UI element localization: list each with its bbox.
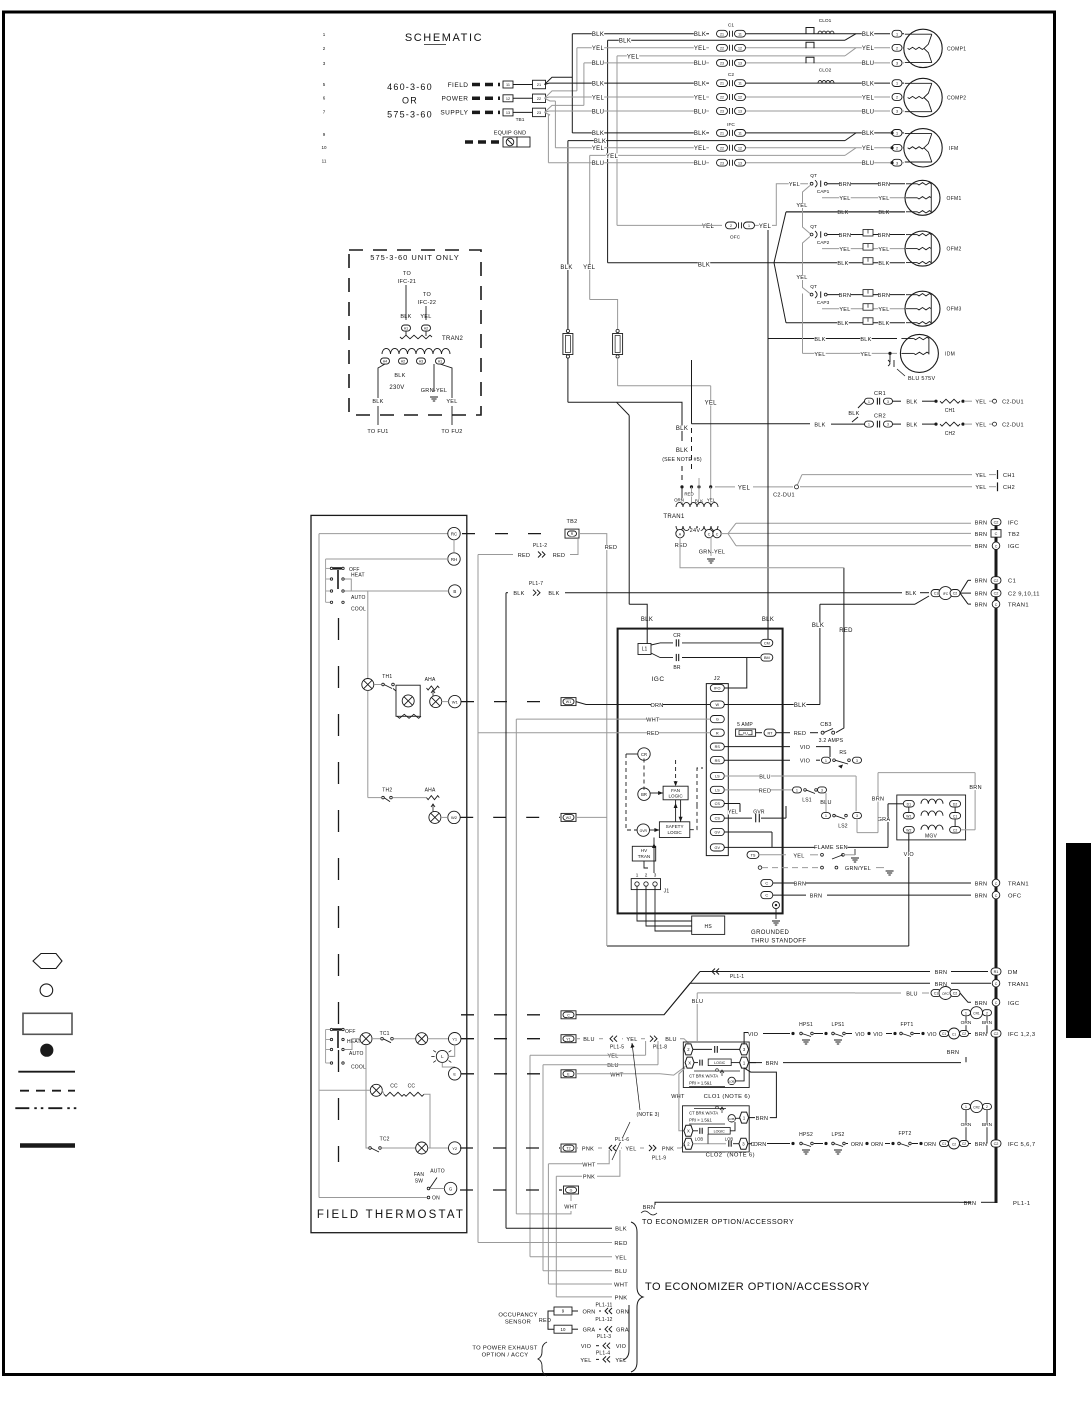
svg-text:WHT: WHT [564, 1205, 578, 1211]
svg-text:Y1: Y1 [566, 1037, 570, 1041]
svg-text:21: 21 [720, 132, 724, 136]
svg-text:T2: T2 [566, 1147, 570, 1151]
svg-text:IFC: IFC [727, 122, 735, 128]
svg-text:IGC: IGC [651, 676, 664, 683]
svg-text:BLK: BLK [878, 210, 889, 216]
svg-text:21: 21 [537, 83, 541, 87]
svg-text:IFC-21: IFC-21 [398, 279, 417, 285]
svg-text:YEL: YEL [615, 1255, 627, 1261]
svg-text:CH1: CH1 [945, 408, 956, 414]
svg-text:YEL: YEL [738, 485, 751, 491]
svg-text:HV: HV [641, 848, 648, 853]
svg-text:FU: FU [743, 732, 748, 736]
svg-text:BLK: BLK [794, 703, 806, 709]
svg-text:2: 2 [986, 1105, 988, 1109]
svg-text:CAP1: CAP1 [817, 189, 830, 195]
svg-text:GRA: GRA [878, 817, 891, 823]
svg-text:YEL: YEL [728, 810, 738, 816]
svg-text:CT BRK W/ATA: CT BRK W/ATA [689, 1074, 718, 1079]
svg-text:BLK: BLK [694, 81, 706, 87]
svg-text:PL1-4: PL1-4 [596, 1351, 610, 1357]
svg-text:YEL: YEL [580, 1358, 591, 1364]
svg-text:C1: C1 [953, 814, 957, 818]
svg-text:CLO1 (NOTE 6): CLO1 (NOTE 6) [704, 1094, 751, 1100]
svg-text:ORN: ORN [650, 703, 663, 709]
svg-text:BLK: BLK [906, 400, 917, 406]
svg-text:C2-DU1: C2-DU1 [1002, 400, 1024, 406]
svg-text:BLK: BLK [814, 337, 825, 343]
svg-text:PNK: PNK [615, 1295, 628, 1301]
svg-text:OFC: OFC [730, 234, 741, 240]
svg-text:BRN: BRN [982, 1020, 993, 1026]
svg-text:WHT: WHT [646, 718, 660, 724]
svg-text:X: X [688, 1060, 691, 1065]
svg-text:BRN: BRN [839, 233, 852, 239]
svg-text:SENSOR: SENSOR [505, 1320, 531, 1326]
svg-text:BLK: BLK [862, 32, 874, 38]
svg-text:YEL: YEL [694, 95, 707, 101]
svg-text:3: 3 [896, 161, 898, 165]
svg-text:RH: RH [451, 557, 457, 562]
svg-text:CR2: CR2 [973, 1105, 980, 1109]
svg-text:ORN: ORN [851, 1142, 863, 1148]
svg-text:RED: RED [675, 543, 688, 549]
svg-text:BLK: BLK [905, 591, 916, 597]
svg-text:22: 22 [720, 46, 724, 50]
svg-text:TS: TS [751, 853, 756, 857]
svg-text:BRN: BRN [975, 603, 988, 609]
svg-text:BLK: BLK [619, 39, 631, 45]
svg-text:PL1-5: PL1-5 [610, 1045, 624, 1051]
svg-text:BRN: BRN [975, 1032, 988, 1038]
svg-text:BLU: BLU [694, 109, 707, 115]
svg-text:CR2: CR2 [874, 414, 886, 420]
svg-text:IFC 1,2,3: IFC 1,2,3 [1008, 1032, 1035, 1038]
svg-text:BLU: BLU [692, 999, 704, 1005]
svg-text:BRN: BRN [947, 1050, 960, 1056]
svg-text:BLU: BLU [583, 1037, 595, 1043]
svg-text:VIO: VIO [800, 759, 811, 765]
svg-text:OPTION / ACCY: OPTION / ACCY [482, 1353, 529, 1359]
svg-text:C2: C2 [994, 592, 999, 596]
svg-text:LOB: LOB [695, 1137, 704, 1142]
svg-text:C2: C2 [994, 1032, 999, 1036]
svg-text:BRN: BRN [964, 1201, 977, 1207]
svg-text:QT: QT [810, 173, 817, 179]
svg-text:BLK: BLK [676, 426, 688, 432]
svg-text:CLO2: CLO2 [706, 1153, 723, 1159]
svg-text:YEL: YEL [705, 401, 718, 407]
svg-text:PRI > 1.5&1: PRI > 1.5&1 [689, 1080, 712, 1085]
svg-text:BLK: BLK [837, 261, 848, 267]
svg-text:VIO: VIO [800, 745, 811, 751]
svg-text:RED: RED [539, 1318, 552, 1324]
svg-text:ORN: ORN [961, 1020, 972, 1026]
svg-text:BLK: BLK [592, 32, 604, 38]
svg-text:C: C [708, 532, 711, 536]
svg-text:YEL: YEL [839, 247, 850, 253]
svg-text:BLU: BLU [862, 61, 875, 67]
svg-text:BLK: BLK [814, 422, 825, 428]
svg-text:TC2: TC2 [380, 1137, 390, 1143]
svg-text:BLK: BLK [372, 399, 383, 405]
svg-text:HPS2: HPS2 [799, 1132, 813, 1138]
svg-text:TB2: TB2 [1008, 532, 1020, 538]
svg-text:C: C [995, 1001, 998, 1005]
svg-text:BLU: BLU [694, 161, 707, 167]
svg-text:2: 2 [896, 46, 898, 50]
svg-text:C2: C2 [994, 579, 999, 583]
svg-text:CC: CC [408, 1084, 416, 1090]
svg-text:IFC 5,6,7: IFC 5,6,7 [1008, 1142, 1035, 1148]
svg-text:FIELD: FIELD [448, 82, 469, 89]
svg-text:H1: H1 [404, 327, 408, 331]
svg-text:YEL: YEL [860, 352, 871, 358]
svg-text:BLU: BLU [862, 109, 875, 115]
svg-text:TO: TO [403, 271, 412, 277]
svg-text:IGC: IGC [1008, 544, 1020, 550]
svg-text:BRN: BRN [878, 293, 891, 299]
svg-text:PL1-12: PL1-12 [595, 1317, 612, 1323]
svg-text:YEL: YEL [878, 196, 889, 202]
svg-text:(NOTE 6): (NOTE 6) [727, 1153, 755, 1159]
svg-text:H2: H2 [424, 327, 428, 331]
svg-text:IFO: IFO [714, 687, 720, 691]
svg-text:C: C [567, 1013, 570, 1017]
svg-text:BRN: BRN [756, 1116, 769, 1122]
svg-text:3: 3 [654, 873, 657, 878]
svg-text:SAFETY: SAFETY [666, 824, 684, 829]
svg-text:C: C [995, 532, 998, 536]
svg-text:2: 2 [896, 96, 898, 100]
svg-text:C1: C1 [942, 1032, 946, 1036]
svg-text:BLK: BLK [592, 81, 604, 87]
svg-text:LS1: LS1 [802, 798, 812, 804]
svg-text:G: G [716, 718, 719, 722]
svg-text:GROUNDED: GROUNDED [751, 930, 789, 936]
svg-text:COMP2: COMP2 [947, 96, 966, 102]
svg-text:LPS1: LPS1 [831, 1022, 844, 1028]
svg-text:ORN: ORN [753, 1142, 766, 1148]
svg-text:IGC: IGC [1008, 1001, 1020, 1007]
svg-text:1: 1 [825, 759, 827, 763]
svg-text:PL1-8: PL1-8 [653, 1045, 667, 1051]
svg-text:BRN: BRN [975, 544, 988, 550]
svg-text:PL1-3: PL1-3 [597, 1334, 611, 1340]
svg-text:WHT: WHT [671, 1094, 685, 1100]
svg-text:YEL: YEL [796, 275, 807, 281]
svg-text:CH2: CH2 [1003, 485, 1015, 491]
svg-text:575-3-60 UNIT ONLY: 575-3-60 UNIT ONLY [370, 253, 459, 262]
svg-text:BLK: BLK [812, 623, 824, 629]
svg-text:BM: BM [764, 656, 770, 660]
svg-text:PRI > 1.5&1: PRI > 1.5&1 [689, 1118, 712, 1123]
svg-text:C: C [995, 603, 998, 607]
svg-text:EQUIP GND: EQUIP GND [494, 131, 527, 137]
svg-text:COMP1: COMP1 [947, 46, 966, 52]
svg-text:LPS2: LPS2 [831, 1132, 844, 1138]
svg-text:RED: RED [794, 731, 807, 737]
svg-text:CR1: CR1 [973, 1012, 980, 1016]
svg-text:3: 3 [821, 789, 823, 793]
svg-text:LOGIC: LOGIC [714, 1061, 726, 1065]
svg-text:GRN-YEL: GRN-YEL [699, 550, 726, 556]
svg-text:YEL: YEL [702, 224, 715, 230]
svg-text:CR: CR [673, 633, 681, 639]
svg-text:W2: W2 [906, 828, 911, 832]
svg-text:WHT: WHT [582, 1162, 596, 1168]
svg-text:11: 11 [738, 132, 742, 136]
svg-text:1: 1 [636, 873, 639, 878]
svg-text:TC1: TC1 [380, 1031, 390, 1037]
svg-text:VIO: VIO [873, 1032, 883, 1038]
svg-text:OFF: OFF [345, 1029, 356, 1035]
svg-text:1: 1 [868, 423, 870, 427]
svg-text:C2: C2 [953, 992, 958, 996]
svg-text:RED: RED [839, 628, 853, 634]
svg-text:BLU 575V: BLU 575V [908, 376, 936, 382]
svg-text:22: 22 [720, 146, 724, 150]
svg-text:21: 21 [720, 82, 724, 86]
svg-text:AUTO: AUTO [351, 595, 366, 601]
svg-text:BLK: BLK [862, 131, 874, 137]
svg-text:D1: D1 [907, 802, 911, 806]
svg-text:2: 2 [896, 146, 898, 150]
svg-text:ORN: ORN [616, 1310, 629, 1316]
svg-text:C2: C2 [962, 1142, 966, 1146]
svg-text:11: 11 [506, 83, 510, 87]
svg-text:460-3-60: 460-3-60 [387, 82, 433, 92]
svg-text:H3: H3 [419, 360, 423, 364]
svg-text:PL1-1: PL1-1 [730, 974, 744, 980]
svg-text:TRAN1: TRAN1 [663, 514, 685, 520]
svg-text:VIO: VIO [616, 1344, 627, 1350]
svg-text:BLK: BLK [594, 139, 606, 145]
svg-text:1: 1 [748, 224, 750, 228]
svg-text:BLK: BLK [694, 32, 706, 38]
svg-text:BLU: BLU [615, 1269, 627, 1275]
svg-text:CH2: CH2 [945, 431, 956, 437]
svg-text:FAN: FAN [414, 1172, 425, 1178]
svg-text:BRN: BRN [839, 293, 852, 299]
svg-text:2: 2 [730, 224, 732, 228]
svg-text:BR: BR [641, 792, 647, 797]
svg-text:CAP2: CAP2 [817, 240, 830, 246]
svg-text:HPS1: HPS1 [799, 1022, 813, 1028]
svg-text:PL1-7: PL1-7 [529, 581, 543, 587]
svg-text:E: E [453, 1072, 456, 1077]
svg-text:W2: W2 [451, 815, 458, 820]
svg-text:YEL: YEL [446, 399, 457, 405]
svg-text:VIO: VIO [927, 1032, 937, 1038]
svg-text:YEL: YEL [592, 95, 605, 101]
svg-text:3: 3 [856, 814, 858, 818]
svg-text:GRA: GRA [616, 1328, 629, 1334]
svg-text:BRN: BRN [982, 1122, 993, 1128]
svg-text:C2: C2 [953, 592, 958, 596]
svg-text:PL1-11: PL1-11 [596, 1303, 613, 1309]
svg-text:YEL: YEL [606, 154, 619, 160]
svg-text:ORN: ORN [582, 1310, 595, 1316]
svg-text:OFM3: OFM3 [947, 307, 962, 313]
svg-text:YEL: YEL [878, 247, 889, 253]
svg-text:BR: BR [673, 665, 681, 671]
svg-text:(SEE NOTE #5): (SEE NOTE #5) [662, 457, 702, 463]
svg-text:VIO: VIO [904, 852, 915, 858]
svg-text:C: C [995, 894, 998, 898]
svg-text:230V: 230V [389, 385, 404, 391]
svg-text:YEL: YEL [625, 1147, 636, 1153]
svg-text:BLK: BLK [615, 1227, 627, 1233]
svg-text:ORN: ORN [674, 498, 684, 503]
svg-text:YEL: YEL [839, 307, 850, 313]
svg-text:YEL: YEL [975, 423, 986, 429]
svg-text:LOGIC: LOGIC [668, 794, 683, 799]
svg-text:YEL: YEL [592, 46, 605, 52]
svg-text:Y2: Y2 [452, 1146, 458, 1151]
svg-text:3: 3 [887, 423, 889, 427]
svg-text:QT: QT [810, 284, 817, 290]
svg-text:VIO: VIO [855, 1032, 865, 1038]
svg-text:CH1: CH1 [1003, 473, 1015, 479]
svg-text:CM: CM [764, 642, 770, 646]
svg-text:13: 13 [506, 111, 510, 115]
svg-text:D2: D2 [953, 802, 957, 806]
svg-text:BRN: BRN [766, 1061, 779, 1067]
svg-text:23: 23 [537, 111, 541, 115]
svg-text:12: 12 [738, 46, 742, 50]
svg-text:BLU: BLU [607, 1063, 619, 1069]
svg-text:BRN: BRN [975, 592, 988, 598]
svg-text:YEL: YEL [626, 1037, 637, 1043]
svg-text:PNK: PNK [583, 1175, 595, 1181]
svg-text:PNK: PNK [662, 1147, 674, 1153]
svg-text:R: R [716, 731, 719, 735]
svg-text:PL1-2: PL1-2 [533, 543, 547, 549]
svg-text:BRN: BRN [975, 1142, 988, 1148]
svg-text:YEL: YEL [862, 95, 875, 101]
svg-text:AHA: AHA [425, 788, 436, 794]
svg-text:RC: RC [451, 531, 457, 536]
svg-text:W1: W1 [452, 699, 459, 704]
svg-text:2: 2 [645, 873, 648, 878]
svg-text:HEAT: HEAT [347, 1039, 361, 1045]
svg-text:ORN: ORN [924, 1142, 936, 1148]
svg-text:YEL: YEL [814, 352, 825, 358]
svg-text:YEL: YEL [592, 146, 605, 152]
svg-text:LOGIC: LOGIC [714, 1130, 726, 1134]
svg-text:BRN: BRN [643, 1205, 656, 1211]
svg-text:TRAN: TRAN [638, 854, 651, 859]
svg-text:VIO: VIO [748, 1032, 759, 1038]
svg-text:TO FU2: TO FU2 [441, 429, 462, 435]
svg-text:3.2 AMPS: 3.2 AMPS [819, 738, 844, 744]
svg-text:YEL: YEL [694, 146, 707, 152]
svg-text:OFC: OFC [942, 992, 949, 996]
svg-text:11: 11 [322, 159, 327, 164]
svg-text:C1: C1 [942, 1142, 946, 1146]
svg-text:23: 23 [720, 161, 724, 165]
svg-text:BLK: BLK [592, 131, 604, 137]
svg-text:J2: J2 [714, 676, 720, 682]
svg-text:FIELD THERMOSTAT: FIELD THERMOSTAT [317, 1209, 465, 1221]
svg-text:3: 3 [856, 759, 858, 763]
svg-text:TRAN1: TRAN1 [1008, 603, 1029, 609]
svg-text:BRN: BRN [872, 797, 885, 803]
svg-text:RED: RED [553, 553, 566, 559]
svg-text:BLU: BLU [759, 775, 771, 781]
svg-text:CAP3: CAP3 [817, 300, 830, 306]
svg-text:FLAME SEN: FLAME SEN [814, 845, 848, 851]
svg-text:BLK: BLK [513, 591, 524, 597]
svg-text:QT: QT [810, 224, 817, 230]
svg-text:1: 1 [965, 1011, 967, 1015]
svg-text:LS2: LS2 [838, 824, 848, 830]
svg-text:BLK: BLK [837, 321, 848, 327]
svg-text:TB2: TB2 [567, 519, 578, 525]
svg-text:BLK: BLK [906, 423, 917, 429]
svg-text:12: 12 [738, 96, 742, 100]
svg-text:BRN: BRN [975, 894, 988, 900]
svg-text:H4: H4 [383, 360, 387, 364]
svg-text:C2-DU1: C2-DU1 [1002, 423, 1024, 429]
svg-text:C2-DU1: C2-DU1 [773, 493, 795, 499]
svg-text:BLU: BLU [906, 992, 918, 998]
svg-text:W1: W1 [566, 700, 571, 704]
svg-text:YEL: YEL [789, 182, 800, 188]
svg-text:TRAN2: TRAN2 [442, 336, 464, 342]
svg-text:TH2: TH2 [382, 788, 392, 794]
svg-text:13: 13 [738, 110, 742, 114]
svg-text:TO FU1: TO FU1 [367, 429, 388, 435]
svg-text:BLU: BLU [665, 1037, 677, 1043]
svg-text:TO: TO [423, 292, 432, 298]
svg-text:L1: L1 [642, 647, 648, 653]
svg-text:YEL: YEL [862, 146, 875, 152]
svg-text:YEL: YEL [796, 203, 807, 209]
svg-text:B: B [453, 589, 456, 594]
svg-text:YEL: YEL [694, 46, 707, 52]
svg-text:COOL: COOL [351, 607, 366, 613]
svg-text:FPT2: FPT2 [898, 1131, 911, 1137]
svg-text:C: C [995, 545, 998, 549]
svg-text:BLK: BLK [837, 210, 848, 216]
svg-text:BRN: BRN [975, 532, 988, 538]
svg-text:THRU STANDOFF: THRU STANDOFF [751, 939, 806, 945]
svg-text:C: C [765, 882, 768, 886]
svg-text:TB1: TB1 [516, 117, 525, 123]
svg-text:OR: OR [402, 96, 418, 106]
svg-text:12: 12 [738, 146, 742, 150]
svg-text:TO ECONOMIZER OPTION/ACCESSORY: TO ECONOMIZER OPTION/ACCESSORY [645, 1281, 870, 1293]
svg-text:RED: RED [647, 731, 660, 737]
svg-text:GV: GV [715, 846, 721, 850]
svg-text:BLK: BLK [676, 448, 688, 454]
svg-text:23: 23 [720, 110, 724, 114]
svg-text:YEL: YEL [759, 224, 772, 230]
svg-text:MGV: MGV [925, 834, 937, 840]
svg-text:W1: W1 [906, 814, 911, 818]
svg-text:BRN: BRN [975, 881, 988, 887]
svg-text:DM: DM [1008, 970, 1018, 976]
svg-text:(NOTE 3): (NOTE 3) [637, 1112, 660, 1118]
svg-text:TO POWER EXHAUST: TO POWER EXHAUST [472, 1346, 537, 1352]
svg-text:YEL: YEL [627, 54, 640, 60]
svg-text:C2: C2 [962, 1032, 966, 1036]
svg-text:FPT1: FPT1 [900, 1022, 913, 1028]
svg-text:BLK: BLK [698, 262, 710, 268]
svg-text:BLU: BLU [694, 61, 707, 67]
